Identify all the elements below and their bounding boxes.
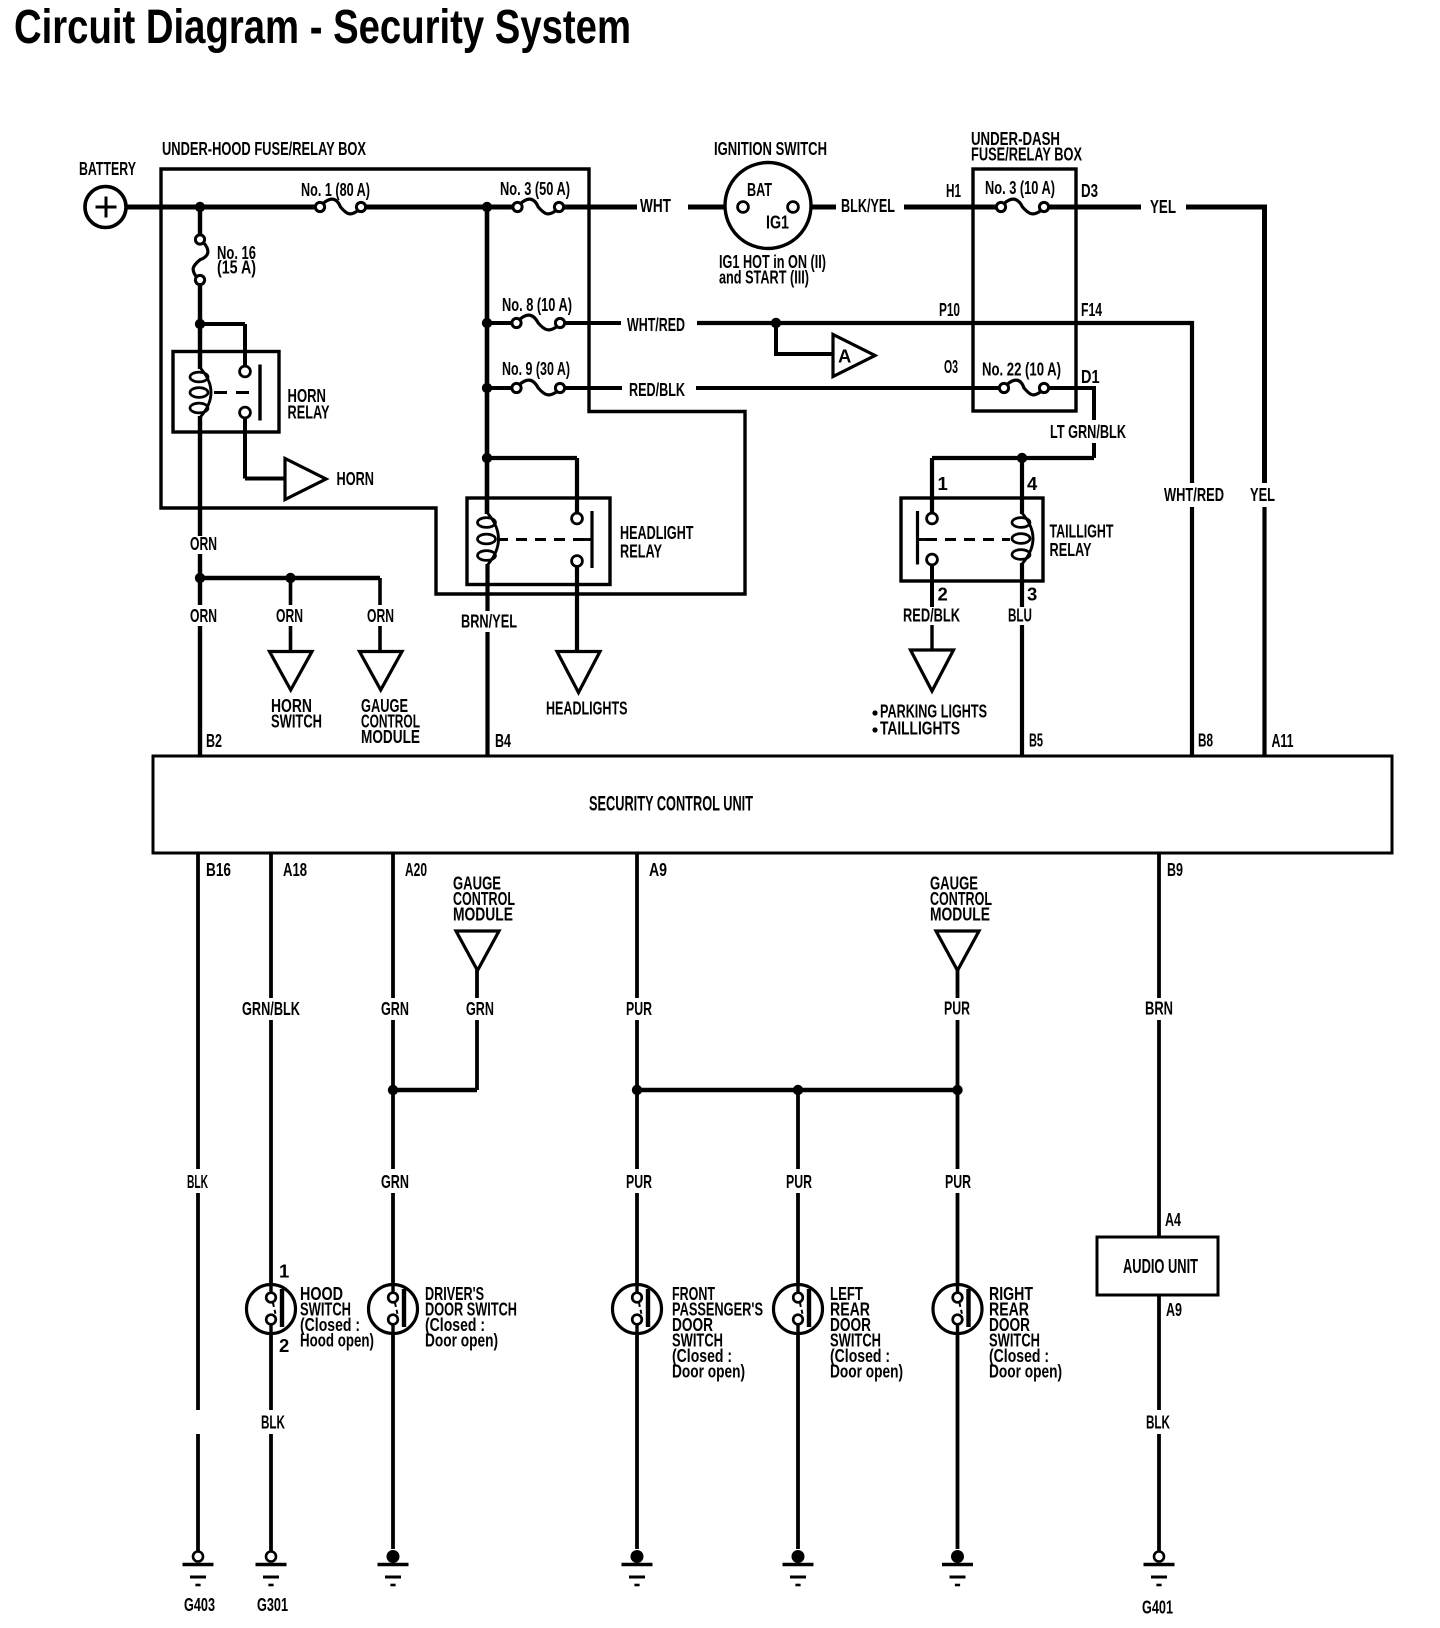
svg-text:MODULE: MODULE — [453, 904, 513, 925]
svg-text:Door open): Door open) — [672, 1361, 745, 1382]
svg-text:YEL: YEL — [1150, 196, 1176, 217]
svg-text:BLK: BLK — [1146, 1412, 1170, 1433]
svg-text:2: 2 — [938, 584, 948, 605]
svg-text:H1: H1 — [946, 180, 961, 201]
svg-text:SWITCH: SWITCH — [271, 711, 322, 732]
svg-text:BATTERY: BATTERY — [79, 158, 136, 179]
svg-text:IG1: IG1 — [766, 212, 789, 233]
svg-text:BLK: BLK — [187, 1171, 208, 1192]
svg-text:A: A — [838, 346, 851, 367]
svg-text:A9: A9 — [1166, 1299, 1182, 1320]
svg-text:3: 3 — [1027, 584, 1037, 605]
svg-text:B16: B16 — [206, 859, 231, 880]
svg-text:ORN: ORN — [190, 605, 217, 626]
svg-text:GRN: GRN — [466, 998, 494, 1019]
svg-text:RED/BLK: RED/BLK — [629, 379, 685, 400]
svg-text:G401: G401 — [1142, 1597, 1173, 1618]
svg-text:BLU: BLU — [1008, 605, 1032, 626]
svg-text:MODULE: MODULE — [361, 726, 420, 747]
svg-text:RED/BLK: RED/BLK — [903, 605, 960, 626]
svg-text:No. 3 (50 A): No. 3 (50 A) — [500, 178, 570, 199]
svg-text:YEL: YEL — [1250, 484, 1275, 505]
svg-text:No. 3 (10 A): No. 3 (10 A) — [985, 177, 1055, 198]
svg-text:and START (III): and START (III) — [719, 267, 809, 288]
svg-text:GRN: GRN — [381, 998, 409, 1019]
svg-text:No. 22 (10 A): No. 22 (10 A) — [982, 359, 1061, 380]
svg-text:4: 4 — [1027, 473, 1038, 494]
svg-text:WHT: WHT — [640, 195, 672, 216]
svg-text:BRN: BRN — [1145, 998, 1173, 1019]
svg-text:ORN: ORN — [190, 533, 217, 554]
svg-text:A11: A11 — [1272, 730, 1294, 751]
svg-text:IGNITION SWITCH: IGNITION SWITCH — [714, 138, 827, 159]
svg-text:Door open): Door open) — [830, 1361, 903, 1382]
svg-text:(15 A): (15 A) — [217, 257, 256, 278]
svg-text:D3: D3 — [1081, 180, 1098, 201]
svg-text:PUR: PUR — [945, 1171, 971, 1192]
svg-text:D1: D1 — [1081, 366, 1100, 387]
svg-text:TAILLIGHTS: TAILLIGHTS — [880, 718, 960, 739]
svg-text:PUR: PUR — [944, 998, 970, 1019]
svg-text:GRN: GRN — [381, 1171, 409, 1192]
svg-text:ORN: ORN — [367, 605, 394, 626]
svg-text:PUR: PUR — [626, 998, 652, 1019]
svg-text:Door open): Door open) — [425, 1330, 498, 1351]
svg-text:A20: A20 — [405, 859, 427, 880]
svg-text:Circuit Diagram - Security Sys: Circuit Diagram - Security System — [14, 1, 631, 54]
svg-text:O3: O3 — [944, 356, 958, 377]
svg-text:P10: P10 — [939, 299, 960, 320]
svg-text:UNDER-HOOD FUSE/RELAY BOX: UNDER-HOOD FUSE/RELAY BOX — [162, 138, 366, 159]
svg-text:2: 2 — [279, 1335, 289, 1356]
svg-text:1: 1 — [938, 473, 948, 494]
svg-text:RELAY: RELAY — [620, 541, 662, 562]
svg-text:AUDIO UNIT: AUDIO UNIT — [1123, 1256, 1198, 1278]
svg-text:RELAY: RELAY — [288, 402, 330, 423]
svg-text:BLK: BLK — [261, 1412, 285, 1433]
svg-text:No. 1 (80 A): No. 1 (80 A) — [301, 179, 370, 200]
svg-text:A9: A9 — [649, 859, 667, 880]
svg-text:G301: G301 — [257, 1594, 288, 1615]
svg-text:HEADLIGHTS: HEADLIGHTS — [546, 698, 628, 719]
svg-text:PUR: PUR — [786, 1171, 812, 1192]
svg-text:RELAY: RELAY — [1050, 539, 1092, 560]
svg-text:A4: A4 — [1165, 1209, 1181, 1230]
svg-text:No. 8 (10 A): No. 8 (10 A) — [502, 294, 572, 315]
svg-text:LT GRN/BLK: LT GRN/BLK — [1050, 421, 1126, 442]
svg-text:A18: A18 — [283, 859, 307, 880]
svg-text:BAT: BAT — [747, 179, 772, 200]
svg-text:G403: G403 — [184, 1594, 215, 1615]
svg-text:Hood open): Hood open) — [300, 1330, 374, 1351]
svg-text:Door open): Door open) — [989, 1361, 1062, 1382]
svg-text:BLK/YEL: BLK/YEL — [841, 195, 895, 216]
svg-text:MODULE: MODULE — [930, 904, 990, 925]
svg-text:B2: B2 — [206, 730, 222, 751]
svg-text:HORN: HORN — [337, 468, 375, 489]
svg-text:B5: B5 — [1029, 730, 1043, 751]
svg-text:WHT/RED: WHT/RED — [627, 314, 685, 335]
svg-text:B4: B4 — [495, 730, 511, 751]
svg-text:F14: F14 — [1081, 299, 1102, 320]
svg-text:1: 1 — [279, 1261, 289, 1282]
svg-text:WHT/RED: WHT/RED — [1164, 484, 1224, 505]
svg-text:FUSE/RELAY BOX: FUSE/RELAY BOX — [971, 144, 1082, 165]
svg-text:SECURITY CONTROL UNIT: SECURITY CONTROL UNIT — [589, 792, 753, 816]
svg-text:B9: B9 — [1167, 859, 1183, 880]
svg-text:GRN/BLK: GRN/BLK — [242, 998, 300, 1019]
svg-text:ORN: ORN — [276, 605, 303, 626]
svg-text:PUR: PUR — [626, 1171, 652, 1192]
svg-text:BRN/YEL: BRN/YEL — [461, 611, 517, 632]
svg-text:B8: B8 — [1198, 730, 1213, 751]
svg-text:No. 9 (30 A): No. 9 (30 A) — [502, 358, 570, 379]
